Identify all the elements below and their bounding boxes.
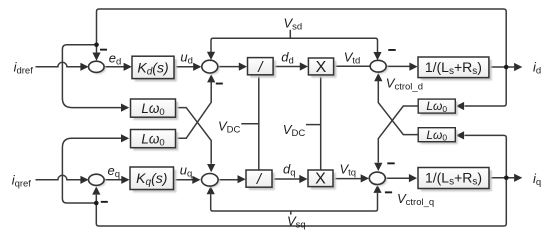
wire plant-d output to i_d xyxy=(489,66,514,68)
wire V_sq label tick xyxy=(290,211,292,215)
node i_q junction dot bottom-left xyxy=(94,201,99,206)
arrow into S2 top (V_sd) xyxy=(207,52,215,60)
wire V_sd line with drops into S2 and S3 xyxy=(211,38,378,53)
wire i_q branch to L-omega-2 xyxy=(62,138,121,203)
sum S4 xyxy=(90,176,106,187)
node i_q output dot xyxy=(504,176,509,181)
wire i_qref input with hop xyxy=(36,175,82,180)
wire Kq to S5 xyxy=(174,179,193,181)
op: shadow + sum S1 xyxy=(90,63,106,74)
blocks xyxy=(130,56,492,192)
arrow into S5 bottom (V_sq) xyxy=(207,186,215,194)
arrowheads xyxy=(80,52,522,195)
wire i_d top feedback xyxy=(97,9,507,67)
arrow into S3 bottom (V_ctrol_d) xyxy=(374,73,382,81)
wire i_dref input with hop xyxy=(36,62,82,67)
minus at S3 top (V_sd) xyxy=(388,49,395,51)
minus at S1 top xyxy=(100,49,107,51)
wire L-omega-4 output cross up to S3 xyxy=(378,81,418,135)
arrow into plant q xyxy=(409,174,417,182)
arrow into divider d xyxy=(239,63,247,71)
wire S5 to div-q xyxy=(218,179,238,181)
wire S1 to Kd xyxy=(104,66,124,68)
arrow output i_d xyxy=(514,63,522,71)
sum S6 xyxy=(371,174,387,186)
block L-omega-4 xyxy=(418,128,458,144)
wire V_DC to multiplier blocks xyxy=(320,75,322,170)
block multiplier X d xyxy=(308,58,336,78)
minus signs xyxy=(100,49,396,203)
arrow into Kd(s) xyxy=(124,63,132,71)
wire S2 to div-d xyxy=(218,66,240,68)
arrow into S6 top (L-omega-3, minus) xyxy=(374,163,382,171)
wire S3 to plant-d xyxy=(386,65,410,67)
wire plant-q output to i_q xyxy=(489,177,514,179)
wire V_sq line with rises into S5 and S6 xyxy=(211,193,378,211)
wire X-d to S3 xyxy=(334,65,371,67)
arrow output i_q xyxy=(514,174,522,182)
arrow into L-omega-3 (i_d) xyxy=(456,102,464,110)
arrow into L-omega-2 xyxy=(121,134,129,142)
block Kq(s) xyxy=(130,167,176,192)
sum S3 xyxy=(372,62,388,74)
arrow into divider q xyxy=(238,175,246,183)
block L-omega-1 xyxy=(131,99,179,120)
wire Kd to S2 xyxy=(174,66,193,68)
arrow into S3 top (V_sd, minus) xyxy=(373,52,381,60)
wire V_DC to divider blocks xyxy=(258,75,260,170)
arrow into plant d xyxy=(409,63,417,71)
minus at S4 bottom xyxy=(101,201,108,203)
minus at S3... S6 top xyxy=(387,162,394,164)
wire i_q up to L-omega-4 input xyxy=(465,135,507,177)
wire i_d branch to L-omega-1 xyxy=(62,45,121,108)
minus at S2 bottom xyxy=(216,83,223,85)
block plant d 1/(Ls+Rs) xyxy=(418,57,492,80)
arrow into multiplier X q xyxy=(299,175,307,183)
arrow into S2 left (u_d) xyxy=(193,63,201,71)
wire S6 to plant-q xyxy=(385,177,409,179)
arrow into L-omega-4 (i_q) xyxy=(456,131,464,139)
node i_d/V_sd junction dot top-left xyxy=(94,43,99,48)
arrow into S6 bottom (V_ctrol_q, minus) xyxy=(373,185,381,193)
wire V_sd label tick xyxy=(289,30,291,38)
block plant q 1/(Ls+Rs) xyxy=(418,168,492,192)
block multiplier X q xyxy=(308,170,336,189)
summing junctions xyxy=(89,60,389,188)
block divider q xyxy=(246,170,275,190)
block divider d xyxy=(248,58,276,78)
arrow into S4 bottom (i_q feedback, minus) xyxy=(92,186,100,194)
wire i_d down to L-omega-3 input xyxy=(465,67,507,106)
arrow into Kq(s) xyxy=(121,176,129,184)
wire V_DC right tick xyxy=(306,124,321,126)
svg-text:X: X xyxy=(316,59,327,76)
svg-text:Kq(s): Kq(s) xyxy=(136,170,167,188)
wire div-q to X-q xyxy=(272,178,299,180)
arrow into S4 left (i_qref) xyxy=(80,176,88,184)
arrow into S5 top (L-omega-1) xyxy=(207,164,215,172)
wire V_DC left tick xyxy=(241,123,258,125)
arrow into multiplier X d xyxy=(300,62,308,70)
wire div-d to X-d xyxy=(273,66,300,68)
block Kd(s) xyxy=(132,56,177,81)
arrow into S1 top (i_d feedback, minus) xyxy=(92,53,100,61)
arrow into S1 left (i_dref) xyxy=(80,63,88,71)
wire S4 to Kq xyxy=(104,179,123,181)
arrow into L-omega-1 xyxy=(121,104,129,112)
sum S5 xyxy=(203,175,220,188)
minus at S6 bottom (V_ctrol_q) xyxy=(385,191,392,193)
wire i_q bottom feedback xyxy=(96,178,506,226)
arrow into S5 left (u_q) xyxy=(192,176,200,184)
wire L-omega-3 output cross down to S6 xyxy=(378,106,418,163)
sum S2 xyxy=(204,62,220,75)
wire L-omega-2 output cross up to S2 xyxy=(176,82,212,139)
svg-text:X: X xyxy=(315,171,326,188)
wire X-q to S6 xyxy=(333,178,361,180)
block L-omega-2 xyxy=(131,130,179,151)
wire L-omega-1 output cross down to S5 xyxy=(176,108,212,164)
arrow into S2 bottom (L-omega-2, minus) xyxy=(207,74,215,82)
block L-omega-3 xyxy=(418,99,458,115)
node i_d output dot xyxy=(504,65,509,70)
arrow into S6 left (V_tq) xyxy=(361,174,369,182)
svg-text:Kd(s): Kd(s) xyxy=(137,59,168,77)
